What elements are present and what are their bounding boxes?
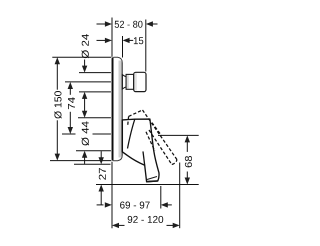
dashed raised lever steep inner segment [146, 132, 155, 151]
dimension text 27 [99, 168, 106, 180]
dashed raised lever bottom band line [149, 130, 172, 165]
dimension text 92 - 120 [128, 216, 164, 223]
knob end cap [134, 72, 146, 91]
dimension text dia 44 [82, 121, 90, 145]
dashed raised lever top band line [143, 110, 177, 160]
extension line H dia150 top [52, 56, 111, 58]
extension line V4 solid lever tip [160, 186, 162, 209]
dashed raised lever upper-mid band segment [152, 123, 162, 136]
lever tip foot emphasis [147, 180, 158, 183]
extension line V3 knob end [145, 20, 147, 72]
extension line V2 plate face [122, 36, 124, 58]
dimension text dia 150 [54, 91, 62, 119]
body left edge internal contour [128, 119, 135, 148]
dimension 69-97 [97, 202, 172, 207]
extension line V5 dashed lever reach [179, 163, 181, 229]
dimension text 15 [134, 37, 143, 44]
extension line H body axis 74 bottom left part [62, 133, 76, 135]
dimension 92-120 [112, 223, 180, 228]
dimension 15 [97, 38, 134, 43]
extension line H dia24 top [79, 72, 111, 74]
extension line H body axis 74 bottom right part [93, 133, 111, 135]
extension line V1 wall/plate-left reference top [111, 18, 113, 57]
dashed raised lever back edge [128, 116, 129, 126]
dimension dia150 vertical column [55, 57, 60, 160]
dimension text 69 - 97 [120, 202, 150, 209]
dimension dia44 vertical column [82, 111, 87, 164]
extension line H dia44 top [78, 117, 111, 119]
mixer body and solid lever silhouette [122, 119, 159, 182]
extension line H dia150 bottom [50, 160, 111, 162]
dimension text 52 - 80 [115, 21, 143, 28]
dimension text 74 [68, 97, 75, 109]
lever tip underline edge [147, 177, 157, 180]
extension line V1 bottom segment [111, 162, 113, 228]
dimension 27 vertical column [99, 151, 104, 205]
extension line H 27 top [74, 163, 111, 165]
dimension text 68 [185, 156, 192, 167]
escutcheon plate [112, 57, 122, 161]
extension line H knob axis 74 top [65, 81, 111, 83]
lever left edge internal contour [143, 151, 145, 165]
extension line H dia24 bottom [79, 91, 111, 93]
dimension dia24 vertical column [82, 60, 87, 112]
extension line H 68 top [158, 134, 199, 136]
extension line H dia44 bottom [76, 150, 111, 152]
knob cone at plate face [122, 75, 126, 89]
extension line H lever tip bottom 27/68 [96, 184, 199, 186]
dimension 52-80 [97, 21, 158, 26]
knob cylinder ring [126, 74, 134, 89]
dimension 68 vertical column [185, 135, 190, 184]
dashed raised lever top-left edge [128, 110, 177, 165]
dimension 74 vertical column [68, 82, 73, 134]
dashed lever tip arc [172, 160, 177, 165]
dimension text dia 24 [82, 34, 90, 58]
